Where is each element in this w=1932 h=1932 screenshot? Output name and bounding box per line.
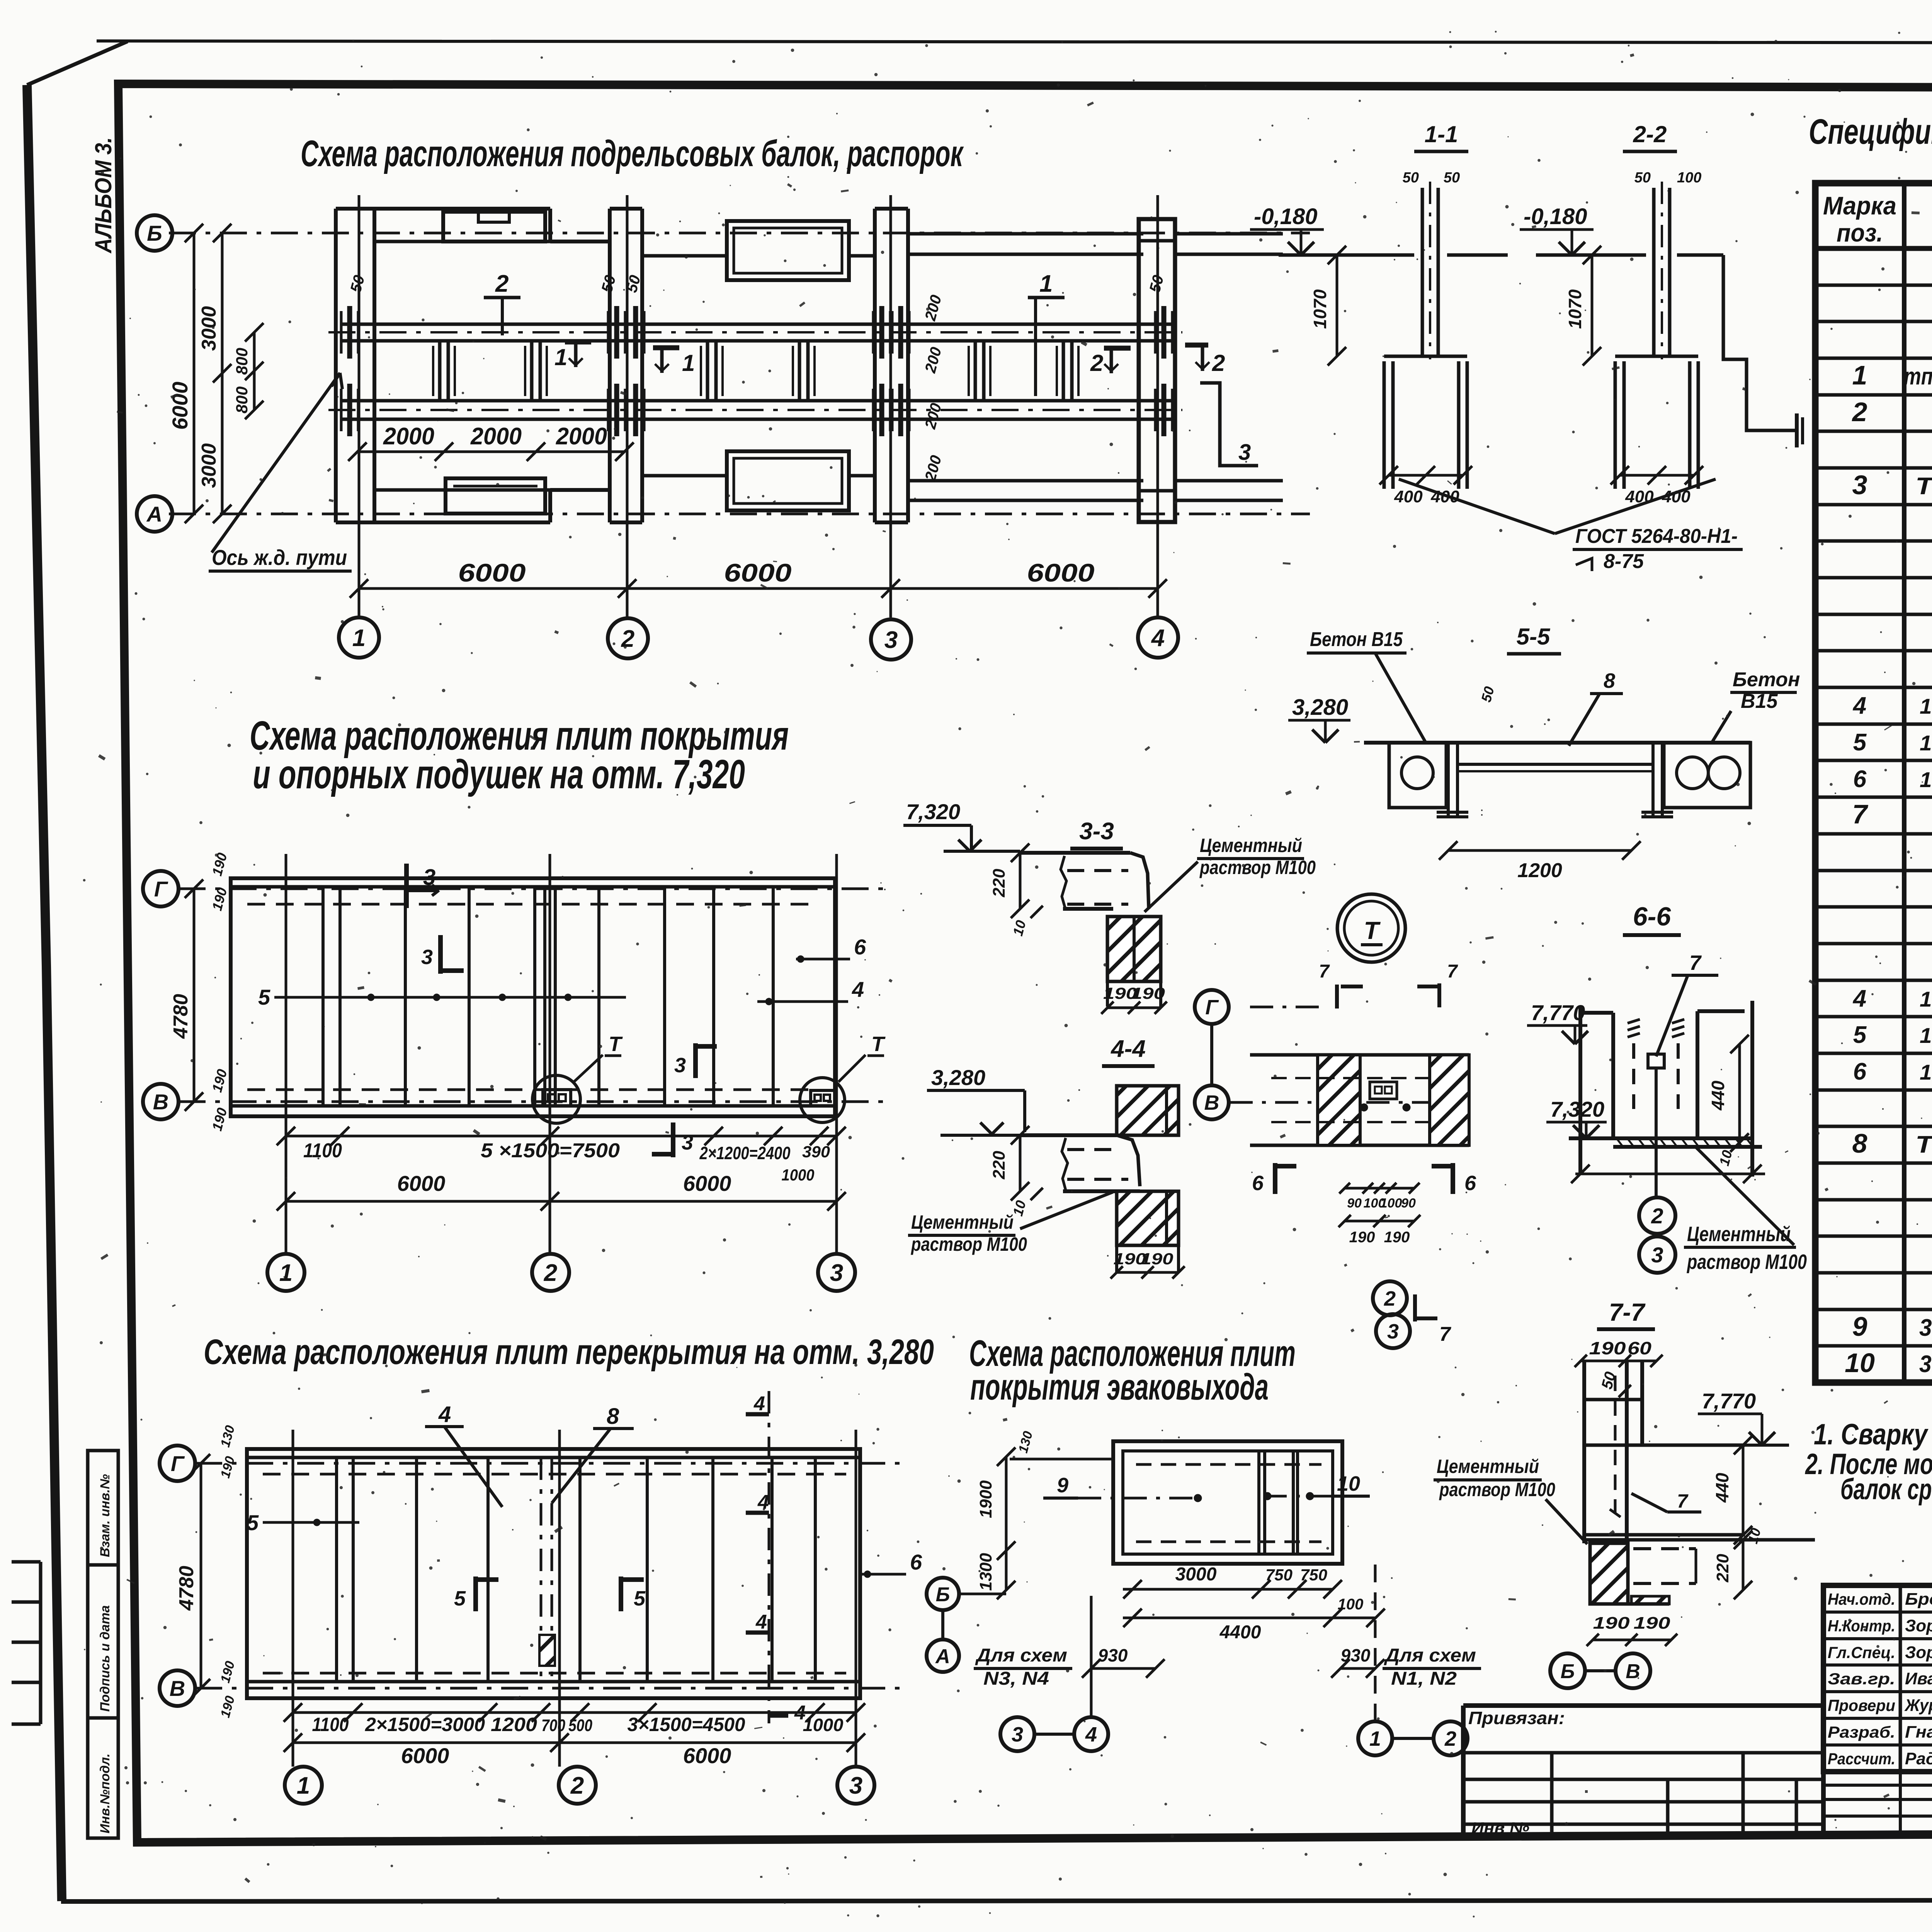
svg-text:1: 1 — [279, 1260, 293, 1286]
svg-text:Цементный: Цементный — [1200, 835, 1302, 856]
svg-text:В: В — [1626, 1660, 1640, 1683]
slab joint lines middle plan — [321, 887, 325, 1106]
monolith box top bay2 — [727, 221, 849, 280]
top plan bottom bump bay1 — [446, 478, 545, 514]
node T double circle — [1337, 894, 1405, 962]
svg-text:Провери: Провери — [1828, 1696, 1895, 1714]
svg-text:Журавлева: Журавлева — [1904, 1696, 1932, 1715]
svg-text:3: 3 — [1651, 1243, 1663, 1267]
svg-text:3: 3 — [674, 1054, 686, 1077]
axis circle Г middle plan — [143, 871, 179, 906]
svg-text:7: 7 — [1439, 1323, 1451, 1345]
top plan outline — [334, 209, 338, 522]
svg-text:1900: 1900 — [976, 1480, 995, 1518]
column line axis 2 — [608, 209, 612, 522]
svg-text:Схема расположения подрельсо: Схема расположения подрельсовых балок, р… — [301, 133, 964, 174]
svg-text:1. Сварку производить электр: 1. Сварку производить электродами типа Э… — [1814, 1418, 1932, 1451]
svg-text:8-75: 8-75 — [1604, 550, 1644, 573]
spec table frame — [1815, 183, 1932, 1383]
svg-text:6-6: 6-6 — [1633, 902, 1671, 931]
svg-text:4: 4 — [1085, 1723, 1097, 1746]
svg-text:2000: 2000 — [556, 423, 607, 450]
svg-text:раствор М100: раствор М100 — [1686, 1250, 1807, 1274]
axis circle 3 top plan — [871, 619, 911, 660]
dim 400 400 section 2-2 — [1620, 474, 1694, 477]
svg-text:2×1200=2400: 2×1200=2400 — [699, 1143, 791, 1163]
section 3-3 slab — [1020, 851, 1130, 855]
axis circle 1 middle — [267, 1254, 304, 1291]
bearing pad T detail left — [532, 1075, 580, 1123]
axis circle 4 top plan — [1138, 617, 1178, 658]
axis circle Г bottom plan — [160, 1446, 195, 1481]
svg-text:3000: 3000 — [198, 443, 220, 488]
svg-text:8: 8 — [1604, 669, 1615, 692]
circled 2-3 under node — [1373, 1281, 1407, 1315]
svg-text:Иванова: Иванова — [1905, 1669, 1932, 1688]
svg-text:6000: 6000 — [683, 1743, 731, 1768]
svg-text:3: 3 — [1852, 470, 1867, 500]
top plan step at axis 2 — [548, 209, 552, 241]
beam end plates and joints — [347, 306, 352, 359]
svg-text:Г: Г — [154, 877, 168, 901]
svg-text:4: 4 — [755, 1611, 767, 1633]
section 2-2 footing — [1615, 355, 1698, 358]
svg-text:220: 220 — [990, 869, 1009, 898]
svg-text:Т: Т — [1364, 917, 1381, 944]
svg-text:Рассчит.: Рассчит. — [1828, 1750, 1895, 1768]
dim 190 190 section 4-4 — [1117, 1271, 1179, 1274]
svg-text:1.141-1 вып. 63: 1.141-1 вып. 63 — [1920, 694, 1932, 718]
svg-text:1: 1 — [352, 625, 366, 651]
svg-text:ТП 708-43.89 л. 8: ТП 708-43.89 л. 8 — [1915, 473, 1932, 500]
vertical dim 6000 left — [193, 233, 196, 514]
svg-text:Нач.отд.: Нач.отд. — [1828, 1590, 1895, 1608]
svg-text:6000: 6000 — [401, 1743, 449, 1768]
cut mark 6 right — [1451, 1163, 1455, 1194]
svg-text:50: 50 — [1444, 170, 1460, 186]
axis circle 1 bottom — [285, 1767, 322, 1804]
svg-text:Спецификация к схемам распо: Спецификация к схемам расположения элеме… — [1809, 112, 1932, 151]
svg-text:Г: Г — [171, 1451, 185, 1476]
svg-text:1.141-1 вып. 63: 1.141-1 вып. 63 — [1920, 767, 1932, 792]
axis circle 2 top plan — [608, 618, 648, 658]
svg-text:6000: 6000 — [724, 558, 792, 587]
axis line Г bottom — [195, 1462, 908, 1465]
svg-text:покрытия эваковыхода: покрытия эваковыхода — [970, 1366, 1269, 1408]
svg-text:3000: 3000 — [198, 306, 220, 351]
svg-text:7,770: 7,770 — [1531, 1000, 1585, 1025]
svg-text:3: 3 — [1012, 1723, 1023, 1746]
svg-text:Гнатенко: Гнатенко — [1905, 1723, 1932, 1742]
circled 1-2 evacuation — [1358, 1721, 1392, 1755]
svg-text:3: 3 — [830, 1260, 843, 1286]
dim chain bottom plan row1 — [293, 1711, 856, 1714]
dim line 6-6 bottom — [1575, 1173, 1765, 1175]
axis circle Г node — [1195, 990, 1229, 1024]
svg-text:2000: 2000 — [470, 423, 522, 450]
axis line Б — [169, 232, 1310, 235]
svg-text:400: 400 — [1394, 487, 1423, 506]
svg-text:балок срезать.: балок срезать. — [1840, 1473, 1932, 1506]
svg-text:190: 190 — [1141, 1250, 1173, 1268]
struts (распорки) between beams — [438, 341, 442, 401]
svg-text:Инв №: Инв № — [1471, 1819, 1529, 1837]
svg-text:Цементный: Цементный — [1437, 1456, 1539, 1477]
svg-text:Зав.гр.: Зав.гр. — [1828, 1670, 1895, 1688]
section 6-6 left wall — [1578, 1007, 1582, 1175]
svg-text:440: 440 — [1712, 1473, 1732, 1503]
hidden beam dashed 7-7 — [1633, 1547, 1696, 1550]
paper corner cut top-left — [27, 41, 128, 85]
svg-text:6: 6 — [1464, 1172, 1476, 1195]
svg-text:7,770: 7,770 — [1702, 1389, 1756, 1413]
svg-text:2-2: 2-2 — [1633, 121, 1667, 147]
column line axis 3 — [873, 209, 877, 522]
svg-text:4-4: 4-4 — [1110, 1036, 1146, 1062]
svg-text:А: А — [935, 1645, 950, 1668]
axis circle Б evacuation — [927, 1578, 959, 1610]
svg-text:4: 4 — [852, 977, 864, 1002]
svg-text:9: 9 — [1852, 1311, 1867, 1342]
axis circle 2 bottom — [559, 1767, 596, 1804]
section 2-2 step bracket — [1723, 255, 1797, 430]
section 7-7 base hatch — [1590, 1543, 1628, 1604]
svg-text:7: 7 — [1689, 951, 1702, 975]
svg-text:3×1500=4500: 3×1500=4500 — [628, 1714, 745, 1735]
spec table column lines — [1902, 183, 1906, 1383]
section 7-7 slab top and level 7,770 — [1584, 1444, 1745, 1447]
axis stems top plan — [358, 195, 361, 617]
svg-text:8: 8 — [607, 1404, 619, 1429]
axis line В middle — [179, 1100, 885, 1103]
vertical dims 1900/1300 evacuation — [1005, 1457, 1008, 1590]
svg-text:190: 190 — [1384, 1229, 1410, 1246]
axis stems bottom plan — [292, 1430, 294, 1767]
svg-text:3: 3 — [884, 627, 898, 653]
svg-text:5: 5 — [634, 1587, 646, 1610]
svg-text:1070: 1070 — [1565, 289, 1585, 329]
svg-text:5: 5 — [454, 1587, 466, 1610]
svg-text:ГОСТ 5264-80-Н1-: ГОСТ 5264-80-Н1- — [1575, 525, 1738, 548]
svg-text:АЛЬБОМ 3.: АЛЬБОМ 3. — [90, 137, 116, 254]
svg-text:Бетон В15: Бетон В15 — [1310, 628, 1403, 651]
svg-text:7-7: 7-7 — [1609, 1298, 1646, 1326]
axis circle В bottom plan — [160, 1670, 195, 1706]
slab joint lines bottom plan — [335, 1458, 338, 1682]
axis circle 3 middle — [818, 1254, 855, 1291]
svg-text:3: 3 — [849, 1772, 862, 1799]
svg-text:7: 7 — [1447, 961, 1458, 982]
svg-text:190: 190 — [1634, 1614, 1671, 1633]
axis line А — [169, 513, 1310, 515]
section 1-1 drawing — [1421, 188, 1424, 356]
svg-text:N1, N2: N1, N2 — [1391, 1668, 1457, 1689]
dim 1070 section 1-1 — [1336, 255, 1338, 356]
svg-text:500: 500 — [568, 1716, 592, 1735]
svg-text:ТП 708-43.89 л. 8: ТП 708-43.89 л. 8 — [1915, 1131, 1932, 1158]
svg-text:В: В — [170, 1676, 185, 1701]
svg-text:4: 4 — [757, 1491, 769, 1514]
svg-text:Ось ж.д. пути: Ось ж.д. пути — [212, 545, 347, 570]
monolith box bottom bay2 — [727, 451, 849, 510]
dim 400 400 section 1-1 — [1389, 474, 1463, 477]
svg-text:10: 10 — [1845, 1348, 1875, 1378]
svg-text:750: 750 — [1300, 1566, 1327, 1584]
dims under evacuation plan — [1123, 1588, 1333, 1591]
svg-text:9: 9 — [1057, 1474, 1068, 1497]
dim 220 7-7 — [1742, 1540, 1745, 1590]
svg-text:100: 100 — [1677, 170, 1701, 186]
svg-text:Привязан:: Привязан: — [1468, 1708, 1565, 1728]
dims 90 100 100 90 node — [1345, 1187, 1414, 1190]
svg-text:4: 4 — [1852, 692, 1866, 719]
svg-text:90: 90 — [1401, 1196, 1416, 1211]
section 7-7 column — [1582, 1361, 1586, 1543]
svg-text:2: 2 — [1090, 350, 1103, 376]
svg-text:7: 7 — [1319, 961, 1330, 982]
svg-text:2: 2 — [570, 1772, 584, 1799]
section 1-1 footing — [1384, 355, 1467, 358]
signature table — [1823, 1585, 1932, 1772]
right end column axis 4 — [1139, 219, 1175, 522]
section 3-3 wall hatched — [1107, 917, 1161, 981]
svg-text:5-5: 5-5 — [1517, 624, 1551, 650]
svg-text:1.141-1 вып. 63: 1.141-1 вып. 63 — [1920, 731, 1932, 755]
title block left grid — [1463, 1778, 1823, 1781]
section 4-4 wall hatched upper — [1117, 1086, 1179, 1135]
section 5-5 slab band — [1364, 741, 1750, 745]
svg-text:Б: Б — [147, 221, 162, 245]
svg-text:1: 1 — [1369, 1727, 1381, 1750]
svg-text:7,320: 7,320 — [906, 799, 960, 824]
svg-text:раствор М100: раствор М100 — [1439, 1479, 1555, 1500]
svg-text:6: 6 — [1853, 1058, 1867, 1085]
axis line Г middle — [179, 888, 885, 890]
svg-text:Подпись и дата: Подпись и дата — [98, 1605, 112, 1712]
svg-text:6: 6 — [854, 935, 866, 959]
bay2 bottom edge — [642, 474, 727, 478]
svg-text:раствор М100: раствор М100 — [910, 1233, 1027, 1255]
svg-text:2: 2 — [1651, 1204, 1663, 1228]
svg-text:190: 190 — [1593, 1614, 1630, 1633]
svg-text:N3, N4: N3, N4 — [983, 1668, 1049, 1689]
vertical dim 800+800 — [253, 332, 256, 410]
section 6-6 bottom slab — [1569, 1136, 1752, 1140]
svg-text:5: 5 — [1853, 729, 1867, 756]
svg-text:1200: 1200 — [1517, 859, 1562, 882]
dim 220 section 3-3 — [1019, 853, 1022, 909]
cut mark 3 lower right middle plan — [693, 1043, 698, 1078]
svg-text:Гл.Спец.: Гл.Спец. — [1828, 1643, 1895, 1662]
svg-text:190: 190 — [1349, 1229, 1375, 1246]
bay2 top edge — [642, 254, 727, 258]
section 6-6 dowel bars — [1632, 1043, 1635, 1109]
svg-text:1: 1 — [554, 344, 567, 370]
svg-text:190: 190 — [1589, 1338, 1626, 1358]
bracket to section 3 — [1200, 383, 1258, 466]
svg-text:1100: 1100 — [312, 1714, 349, 1735]
dim chain 6000x3 top plan — [359, 587, 1158, 590]
svg-text:поз.: поз. — [1837, 218, 1883, 247]
svg-text:Инв.№подл.: Инв.№подл. — [98, 1753, 112, 1833]
svg-text:8: 8 — [1852, 1128, 1867, 1158]
section 7-7 slab bottom — [1584, 1533, 1745, 1537]
dim 190 190 7-7 bottom — [1593, 1639, 1671, 1641]
svg-text:1200: 1200 — [491, 1714, 537, 1735]
svg-text:3-3: 3-3 — [1079, 818, 1114, 845]
svg-text:4: 4 — [1852, 985, 1866, 1012]
svg-text:3: 3 — [421, 946, 433, 969]
svg-text:2: 2 — [1384, 1287, 1396, 1310]
svg-text:3.006.1-2.87. вып. 2,4: 3.006.1-2.87. вып. 2,4 — [1919, 1351, 1932, 1378]
svg-text:390: 390 — [802, 1143, 830, 1161]
cut mark 6 left — [1273, 1163, 1277, 1194]
svg-text:4: 4 — [1151, 625, 1165, 651]
svg-text:2×1500=3000: 2×1500=3000 — [365, 1714, 485, 1735]
svg-text:2000: 2000 — [383, 423, 434, 450]
svg-text:10: 10 — [1337, 1472, 1360, 1495]
axis circle Б — [137, 215, 172, 251]
svg-text:1100: 1100 — [303, 1139, 342, 1162]
section 4-4 slab — [1020, 1133, 1117, 1137]
cut marks 4 right bottom plan — [768, 1391, 770, 1723]
vertical dim 3000+3000 left — [221, 233, 224, 514]
axis circle А — [137, 496, 172, 532]
spec table header row line — [1815, 246, 1932, 251]
axis circle В node — [1195, 1085, 1229, 1119]
axis line В bottom — [195, 1687, 908, 1690]
circled 2-3 6-6 — [1639, 1197, 1675, 1234]
svg-text:4: 4 — [438, 1402, 451, 1427]
svg-text:750: 750 — [1265, 1566, 1293, 1584]
svg-text:тп708-43.89 КЖИ-Б1,Б2СБ: тп708-43.89 КЖИ-Б1,Б2СБ — [1904, 363, 1932, 390]
section 6-6 embed plate — [1648, 1054, 1664, 1068]
svg-text:5 ×1500=7500: 5 ×1500=7500 — [481, 1139, 620, 1162]
svg-text:Т: Т — [609, 1032, 623, 1056]
svg-text:3000: 3000 — [1175, 1564, 1217, 1585]
svg-text:6: 6 — [1252, 1172, 1264, 1195]
svg-text:7: 7 — [1677, 1490, 1689, 1512]
bay3 wall top (double line) — [908, 232, 1143, 236]
svg-text:3: 3 — [1387, 1320, 1399, 1343]
section 6-6 right wall — [1697, 1009, 1745, 1013]
flag 7 under node — [1413, 1294, 1417, 1321]
dim chain middle plan 6000s — [286, 1200, 837, 1203]
svg-text:3,280: 3,280 — [931, 1065, 985, 1090]
svg-text:2: 2 — [1444, 1727, 1456, 1750]
svg-text:50: 50 — [1403, 170, 1419, 186]
svg-text:4400: 4400 — [1219, 1622, 1261, 1643]
cut mark 3 top middle plan — [404, 864, 409, 908]
svg-text:1: 1 — [297, 1772, 310, 1799]
dim 440 7-7 — [1742, 1445, 1745, 1535]
svg-text:700: 700 — [541, 1716, 565, 1735]
svg-text:Марка: Марка — [1823, 191, 1896, 220]
svg-text:5: 5 — [247, 1510, 259, 1535]
svg-text:6000: 6000 — [458, 558, 526, 587]
svg-text:6000: 6000 — [168, 382, 192, 430]
svg-text:930: 930 — [1098, 1645, 1128, 1665]
evacuation plan joints — [1257, 1451, 1260, 1554]
svg-text:4780: 4780 — [175, 1566, 198, 1611]
svg-text:Для схем: Для схем — [1384, 1645, 1476, 1666]
paper edge left — [27, 85, 62, 1901]
svg-text:4: 4 — [753, 1393, 765, 1415]
weld leader ГОСТ — [1399, 479, 1555, 534]
svg-text:3,280: 3,280 — [1292, 695, 1348, 720]
svg-text:Для схем: Для схем — [975, 1645, 1067, 1666]
svg-text:1070: 1070 — [1310, 289, 1330, 329]
svg-text:7: 7 — [1852, 799, 1869, 829]
dim chain 2000x3 — [357, 451, 624, 453]
svg-text:2: 2 — [495, 270, 509, 297]
svg-text:3: 3 — [423, 865, 435, 890]
paper edge top — [97, 41, 1932, 43]
svg-text:Цементный: Цементный — [911, 1211, 1014, 1233]
dim 440 6-6 — [1738, 1044, 1741, 1143]
svg-text:90: 90 — [1347, 1196, 1362, 1211]
svg-text:800: 800 — [233, 386, 251, 413]
monolith strip hatch bottom — [539, 1635, 555, 1666]
svg-text:440: 440 — [1708, 1080, 1728, 1111]
svg-text:2: 2 — [621, 626, 634, 652]
svg-text:220: 220 — [1713, 1554, 1732, 1583]
dim 220 section 4-4 — [1019, 1135, 1022, 1191]
axis stems middle plan — [285, 854, 287, 1254]
top plan top bump bay1 — [443, 212, 545, 241]
svg-text:3.006.1-2.87.вып. 2,4: 3.006.1-2.87.вып. 2,4 — [1919, 1315, 1932, 1341]
bay3 wall bottom (double line) — [908, 479, 1143, 483]
svg-text:5: 5 — [1853, 1022, 1867, 1048]
title block outer — [1463, 1703, 1823, 1708]
svg-text:Т: Т — [871, 1032, 886, 1056]
margin stamp strip — [88, 1451, 118, 1838]
axis circle 1 top plan — [339, 617, 379, 658]
axis circle 3 bottom — [837, 1767, 874, 1804]
svg-text:3: 3 — [682, 1131, 693, 1154]
rail beam upper — [340, 323, 1175, 326]
svg-text:800: 800 — [233, 348, 251, 375]
svg-text:1000: 1000 — [803, 1715, 844, 1735]
svg-text:1000: 1000 — [782, 1166, 815, 1184]
paper edge bottom — [61, 1900, 1932, 1901]
axis circle 2 middle — [532, 1254, 569, 1291]
svg-text:Г: Г — [1205, 996, 1219, 1019]
cut mark 3 inside middle plan — [438, 935, 443, 974]
monolith strip Ум1 (dashed) — [540, 1458, 543, 1682]
dim chain middle plan row1 — [286, 1135, 837, 1138]
svg-text:1: 1 — [682, 350, 695, 376]
evacuation plan outline — [1113, 1441, 1342, 1564]
svg-text:1-1: 1-1 — [1425, 121, 1458, 147]
svg-text:6000: 6000 — [1027, 558, 1095, 587]
svg-text:В: В — [1204, 1091, 1219, 1114]
svg-text:Взам. инв.№: Взам. инв.№ — [98, 1474, 112, 1557]
bearing pad T detail right — [800, 1078, 845, 1122]
svg-text:1.141-1 вып. 63: 1.141-1 вып. 63 — [1920, 1023, 1932, 1048]
vertical dim 4780 bottom plan — [200, 1463, 202, 1688]
svg-text:6000: 6000 — [397, 1171, 446, 1196]
svg-text:В: В — [153, 1090, 168, 1114]
circled Б-В 7-7 — [1550, 1653, 1585, 1688]
svg-text:100: 100 — [1380, 1196, 1402, 1211]
svg-text:Бетон: Бетон — [1733, 668, 1800, 691]
svg-text:Н.Контр.: Н.Контр. — [1828, 1617, 1895, 1635]
node plan fragment — [1250, 1006, 1321, 1009]
cut marks 5 inside bottom plan — [473, 1577, 478, 1611]
dim chain bottom plan 6000s — [293, 1742, 856, 1744]
bay3 band extensions right of column 4 — [1175, 232, 1283, 236]
